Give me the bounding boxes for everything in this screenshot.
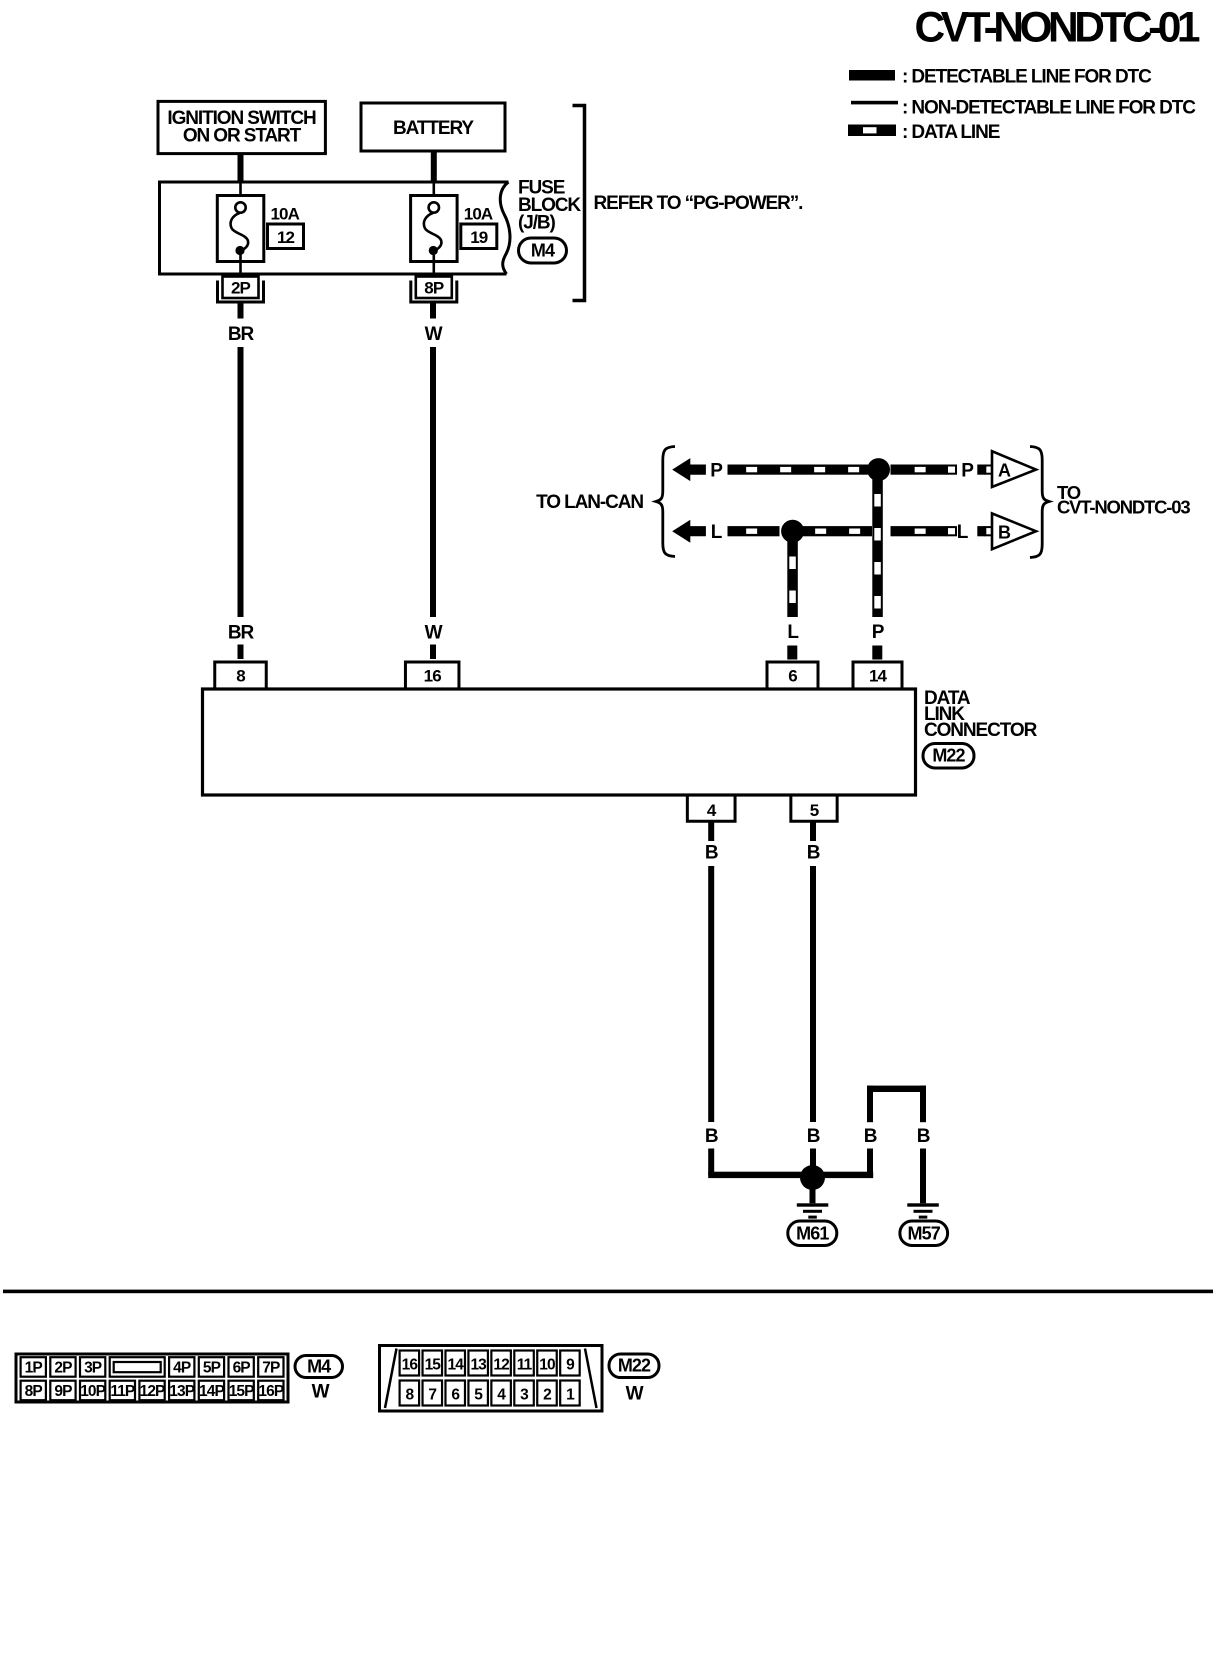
svg-text:5: 5: [474, 1387, 483, 1404]
fuse block label: [518, 178, 581, 234]
label TO LAN-CAN: [536, 492, 643, 513]
svg-text:12P: 12P: [140, 1383, 165, 1400]
fuse rating 10A: [464, 205, 493, 224]
svg-text:2: 2: [543, 1387, 551, 1404]
svg-text:3P: 3P: [84, 1360, 102, 1377]
data line L horizontal middle: [803, 526, 873, 536]
jumper left leg upper: [867, 1086, 873, 1123]
connector face M4: [16, 1354, 288, 1402]
svg-text:B: B: [864, 1126, 877, 1147]
svg-text:W: W: [425, 324, 443, 345]
svg-text:: DETECTABLE LINE FOR DTC: : DETECTABLE LINE FOR DTC: [902, 67, 1152, 88]
brace to LAN-CAN: [656, 447, 675, 557]
wire label B lower left: [705, 1126, 718, 1147]
svg-text:16: 16: [424, 667, 442, 686]
svg-text:8P: 8P: [424, 279, 444, 298]
svg-text:(J/B): (J/B): [518, 213, 555, 234]
svg-text:1: 1: [566, 1387, 575, 1404]
horizontal ground bus wire: [708, 1172, 873, 1178]
svg-text:10A: 10A: [271, 205, 300, 224]
svg-text:: DATA LINE: : DATA LINE: [902, 122, 1000, 143]
wire label W lower: [425, 623, 443, 644]
data line P vertical: [872, 478, 883, 617]
connector bracket under 2P: [218, 281, 264, 303]
separator line: [3, 1290, 1213, 1294]
svg-text:14: 14: [869, 667, 888, 686]
svg-text:7: 7: [428, 1387, 436, 1404]
wire B from pin 5 stub: [810, 821, 816, 841]
svg-text:L: L: [711, 522, 723, 543]
svg-text:B: B: [807, 843, 820, 864]
svg-text:4: 4: [707, 801, 717, 820]
svg-text:M22: M22: [618, 1356, 651, 1376]
data stub to pin 6: [787, 646, 797, 660]
wire label B jumper left: [864, 1126, 877, 1147]
svg-text:TO LAN-CAN: TO LAN-CAN: [536, 492, 643, 513]
svg-text:M4: M4: [531, 241, 555, 261]
wire battery to fuse block (thick): [431, 151, 437, 182]
svg-text:REFER TO “PG-POWER”.: REFER TO “PG-POWER”.: [594, 193, 803, 214]
data link connector label: [924, 688, 1038, 741]
wire label L right: [957, 522, 969, 543]
svg-text:12: 12: [493, 1357, 509, 1374]
svg-text:9P: 9P: [54, 1383, 72, 1400]
DLC pin 16: [405, 662, 459, 689]
connector M22 oval footer: [609, 1354, 659, 1378]
connector pin 2P box: [223, 277, 259, 299]
svg-text:B: B: [917, 1126, 930, 1147]
connector M4 oval footer: [295, 1356, 343, 1378]
svg-text:14: 14: [448, 1357, 465, 1374]
jumper wire top: [867, 1086, 926, 1092]
svg-text:6: 6: [788, 667, 797, 686]
jumper right leg upper: [920, 1086, 926, 1123]
connector triangle A: [992, 451, 1036, 487]
svg-text:P: P: [961, 461, 974, 482]
svg-text:M57: M57: [908, 1224, 941, 1244]
svg-text:BR: BR: [228, 623, 255, 644]
svg-text:10P: 10P: [80, 1383, 105, 1400]
svg-text:A: A: [998, 461, 1011, 481]
DLC pin 14: [853, 662, 902, 689]
brace to CVT-NONDTC-03: [1030, 447, 1049, 558]
svg-text:M22: M22: [932, 746, 965, 766]
ground name M57 oval: [900, 1221, 948, 1246]
legend data line: [848, 122, 1000, 143]
wire BR (thick): [238, 347, 244, 617]
wire label B lower mid: [807, 1126, 820, 1147]
data line L horizontal right: [891, 526, 957, 536]
svg-text:BATTERY: BATTERY: [393, 118, 474, 139]
DLC pin 8: [215, 662, 267, 689]
svg-text:CVT-NONDTC-01: CVT-NONDTC-01: [914, 5, 1199, 52]
DLC pin 5: [791, 795, 837, 821]
legend non-detectable line for DTC: [851, 97, 1196, 118]
connector M4 oval: [519, 238, 567, 263]
svg-text:3: 3: [520, 1387, 529, 1404]
arrow P to LAN-CAN: [672, 458, 706, 481]
bracket refer to PG-POWER: [573, 106, 585, 301]
wire W stub: [430, 304, 436, 319]
wire label B (pin 5): [807, 843, 820, 864]
legend detectable line for DTC: [849, 67, 1152, 88]
svg-text:L: L: [957, 522, 969, 543]
fuse number 19 box: [461, 224, 497, 249]
svg-text:10A: 10A: [464, 205, 493, 224]
connector M22 oval: [923, 744, 974, 769]
wire label B jumper right: [917, 1126, 930, 1147]
svg-text:B: B: [705, 843, 718, 864]
ignition switch box: [158, 101, 325, 153]
wire label L: [711, 522, 723, 543]
data line P horizontal right: [891, 465, 957, 475]
wire B to junction: [708, 1149, 714, 1176]
wire B from pin 4 stub: [708, 821, 714, 841]
svg-text:M4: M4: [307, 1357, 331, 1377]
wire label P: [710, 461, 723, 482]
svg-text:6: 6: [451, 1387, 460, 1404]
svg-text:16P: 16P: [258, 1383, 283, 1400]
wire label W: [425, 324, 443, 345]
svg-text:: NON-DETECTABLE LINE FOR DTC: : NON-DETECTABLE LINE FOR DTC: [902, 97, 1196, 118]
wire W stub to DLC: [430, 645, 436, 660]
fuse block J/B outline with torn right edge: [160, 182, 510, 274]
data link connector box: [203, 689, 916, 795]
svg-text:BR: BR: [228, 324, 255, 345]
svg-text:5P: 5P: [203, 1360, 221, 1377]
svg-text:2P: 2P: [231, 279, 251, 298]
svg-text:CVT-NONDTC-03: CVT-NONDTC-03: [1057, 497, 1190, 518]
fuse 12 (10A): [217, 182, 263, 277]
svg-text:L: L: [787, 622, 799, 643]
data stub to pin 14: [872, 646, 882, 660]
wire B from pin 5 to junction: [810, 1149, 816, 1172]
svg-text:13: 13: [470, 1357, 487, 1374]
svg-text:4P: 4P: [173, 1360, 191, 1377]
svg-text:12: 12: [277, 228, 295, 247]
fuse rating 10A: [271, 205, 300, 224]
connector bracket under 8P: [411, 281, 457, 303]
DLC pin 4: [687, 795, 735, 821]
connector face M22: [380, 1346, 603, 1412]
ground symbol M57: [907, 1203, 939, 1218]
note REFER TO PG-POWER: [594, 193, 803, 214]
wire label B (pin 4): [705, 843, 718, 864]
svg-text:11P: 11P: [110, 1383, 135, 1400]
fuse 19 (10A): [411, 182, 458, 277]
wire B from pin 4 (thick): [708, 866, 714, 1122]
svg-text:2P: 2P: [54, 1360, 72, 1377]
data line L stub to connector B: [977, 526, 994, 536]
svg-text:5: 5: [810, 801, 819, 820]
battery box: [361, 103, 505, 151]
wire label P above pin 14: [872, 622, 885, 643]
connector triangle B: [992, 513, 1036, 549]
svg-text:8: 8: [236, 667, 245, 686]
svg-text:M61: M61: [796, 1224, 829, 1244]
svg-text:9: 9: [566, 1357, 575, 1374]
data line L vertical: [787, 541, 798, 618]
svg-text:13P: 13P: [169, 1383, 194, 1400]
svg-text:10: 10: [539, 1357, 555, 1374]
svg-text:1P: 1P: [25, 1360, 43, 1377]
wire label P right: [961, 461, 974, 482]
connector M4 color W: [312, 1382, 330, 1403]
junction dot on L line: [781, 520, 804, 543]
data line P stub to connector A: [977, 465, 994, 475]
svg-text:6P: 6P: [233, 1360, 251, 1377]
svg-text:15: 15: [425, 1357, 442, 1374]
svg-text:15P: 15P: [229, 1383, 254, 1400]
svg-text:8: 8: [405, 1387, 414, 1404]
DLC pin 6: [767, 662, 818, 689]
svg-text:CONNECTOR: CONNECTOR: [924, 720, 1038, 741]
wire label BR lower: [228, 623, 255, 644]
svg-text:4: 4: [497, 1387, 506, 1404]
svg-text:W: W: [312, 1382, 330, 1403]
junction dot on P line: [867, 458, 890, 481]
connector M22 color W: [626, 1384, 644, 1405]
ground symbol M61: [810, 1188, 816, 1203]
svg-text:19: 19: [470, 228, 488, 247]
title CVT-NONDTC-01: [914, 5, 1199, 52]
wire B from pin 5 (thick): [810, 866, 816, 1122]
svg-text:W: W: [626, 1384, 644, 1405]
svg-text:W: W: [425, 623, 443, 644]
arrow L to LAN-CAN: [672, 520, 706, 543]
svg-text:7P: 7P: [262, 1360, 280, 1377]
wire BR stub: [238, 304, 244, 319]
wire ignition switch to fuse block (thick): [238, 154, 244, 182]
svg-text:14P: 14P: [199, 1383, 224, 1400]
svg-text:11: 11: [517, 1357, 533, 1374]
wire label BR: [228, 324, 255, 345]
svg-text:8P: 8P: [25, 1383, 43, 1400]
ground name M61 oval: [788, 1221, 837, 1246]
svg-text:P: P: [872, 622, 885, 643]
wire label L above pin 6: [787, 622, 799, 643]
jumper left leg lower: [867, 1149, 873, 1175]
svg-text:P: P: [710, 461, 723, 482]
data line P horizontal: [728, 465, 869, 475]
svg-text:B: B: [705, 1126, 718, 1147]
wire W (thick): [430, 347, 436, 617]
wire BR stub to DLC: [238, 645, 244, 660]
label TO CVT-NONDTC-03: [1057, 482, 1190, 518]
jumper right leg to ground: [920, 1149, 926, 1204]
junction dot ground bus: [800, 1165, 825, 1190]
svg-text:B: B: [807, 1126, 820, 1147]
svg-text:16: 16: [402, 1357, 419, 1374]
svg-text:B: B: [998, 523, 1011, 543]
connector pin 8P box: [416, 277, 452, 299]
fuse number 12 box: [268, 224, 304, 249]
data line L horizontal: [728, 526, 780, 536]
svg-text:ON OR START: ON OR START: [183, 126, 302, 147]
